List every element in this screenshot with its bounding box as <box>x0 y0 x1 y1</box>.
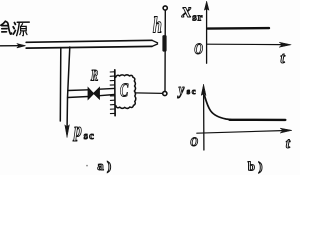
svg-text:p: p <box>72 119 82 141</box>
response curve y_sc <box>205 96 231 120</box>
capacity chamber C (bellows blob) <box>116 75 136 109</box>
pipe bottom line <box>26 46 152 48</box>
speck <box>86 165 88 167</box>
svg-text:sc: sc <box>84 131 95 142</box>
svg-text:b): b) <box>248 158 266 173</box>
svg-text:h: h <box>153 13 162 38</box>
nozzle top converge <box>152 40 158 43</box>
wall hatch ticks <box>110 72 114 114</box>
nozzle bottom converge <box>152 44 158 46</box>
restriction valve R (bowtie) <box>88 88 94 100</box>
fixed wall <box>114 70 116 116</box>
svg-text:O: O <box>190 135 198 149</box>
svg-text:t: t <box>280 50 285 67</box>
svg-text:a): a) <box>97 158 114 173</box>
svg-text:sr: sr <box>192 12 203 24</box>
node circle top <box>163 6 167 10</box>
svg-text:sc: sc <box>187 86 197 96</box>
svg-text:R: R <box>90 66 98 83</box>
svg-text:y: y <box>177 81 185 99</box>
node circle bottom <box>163 91 167 95</box>
wire C to nozzle node <box>135 92 162 95</box>
top graph x-axis <box>207 43 282 45</box>
svg-text:O: O <box>194 42 203 59</box>
svg-text:x: x <box>181 0 192 22</box>
step input x_sr <box>208 27 269 30</box>
flapper link wire <box>164 11 166 92</box>
svg-text:C: C <box>120 79 129 102</box>
branch left wall to output <box>59 48 62 121</box>
flapper (baffle plate) <box>162 35 166 52</box>
bottom graph x-axis <box>197 131 282 134</box>
pipe top line (to nozzle) <box>26 40 152 42</box>
valve outlet bottom <box>99 95 114 96</box>
arrowhead p_sc <box>65 125 70 138</box>
valve outlet top <box>99 87 114 90</box>
pipe to valve bottom <box>68 97 89 98</box>
supply inlet arrow <box>0 45 19 47</box>
svg-text:t: t <box>286 136 291 152</box>
label 气源 (air supply) <box>1 21 29 35</box>
pipe to valve top <box>68 89 88 92</box>
branch right wall / p_sc arrow line <box>67 47 70 126</box>
top graph y-axis <box>206 6 208 63</box>
bottom graph y-axis <box>203 94 205 150</box>
